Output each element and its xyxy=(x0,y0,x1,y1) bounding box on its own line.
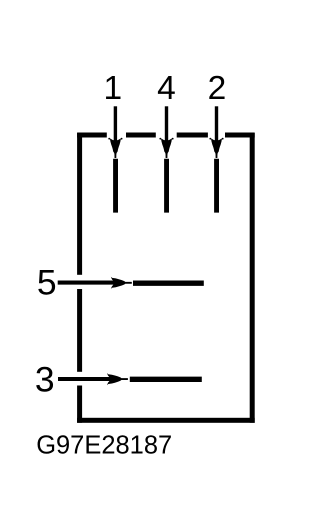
relay body outline (left, bottom, right edges) xyxy=(80,133,253,423)
arrow from label 4 xyxy=(159,106,173,158)
pin 5 terminal xyxy=(133,281,204,286)
pin 4 terminal xyxy=(164,159,169,213)
svg-text:3: 3 xyxy=(35,359,55,399)
arrow from label 1 xyxy=(108,106,122,158)
arrow from label 5 xyxy=(58,277,132,289)
relay body top edge (dashed) xyxy=(77,133,255,138)
svg-text:4: 4 xyxy=(157,70,176,107)
arrow from label 2 xyxy=(209,106,223,158)
pin 1 terminal xyxy=(113,159,118,213)
pin 2 terminal xyxy=(214,159,219,213)
svg-text:G97E28187: G97E28187 xyxy=(36,431,172,459)
pin 3 terminal xyxy=(130,377,202,382)
svg-text:2: 2 xyxy=(208,70,227,107)
relay body bottom edge xyxy=(77,418,255,423)
svg-text:1: 1 xyxy=(103,70,122,107)
arrow from label 3 xyxy=(58,373,128,385)
wire halo break in left edge at pin 5 xyxy=(73,275,85,289)
svg-text:5: 5 xyxy=(37,263,57,303)
wire halo break in left edge at pin 3 xyxy=(73,372,85,386)
